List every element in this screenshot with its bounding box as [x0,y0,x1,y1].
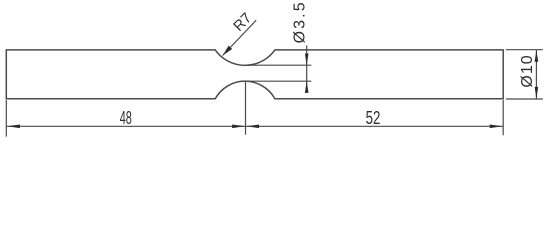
label R7 [231,10,256,35]
arrow Ø10 top [535,50,539,62]
Ø10 extension lines [506,50,543,99]
Ø3.5 dimension line [306,46,308,93]
svg-text:48: 48 [120,108,132,129]
label Ø10 [519,54,536,87]
label 48 [120,108,132,129]
dimension line 48 [6,125,245,127]
extension line left (48 dim) [5,100,7,137]
arrow Ø3.5 lower (points up) [305,81,309,93]
svg-text:Ø10: Ø10 [519,54,536,87]
arrow 48 left [7,125,20,129]
dimension line 52 [246,125,504,127]
arrow 52 left [246,125,259,129]
extension line center (neck axis) [245,82,247,135]
label Ø3.5 [291,0,308,43]
arrow Ø3.5 upper (points down) [305,53,309,65]
Ø10 dimension line [535,50,537,99]
specimen body outline [6,50,503,99]
arrow 48 right [232,125,245,129]
arrow Ø10 bottom [535,87,539,99]
R7 leader arrow [221,46,232,57]
Ø3.5 neck extension lines [245,65,311,81]
svg-text:52: 52 [366,109,381,128]
svg-text:Ø3.5: Ø3.5 [291,0,308,43]
arrow 52 right [490,125,503,129]
label 52 [366,109,381,128]
R7 leader line [223,20,257,55]
extension line right (52 dim) [502,100,504,135]
